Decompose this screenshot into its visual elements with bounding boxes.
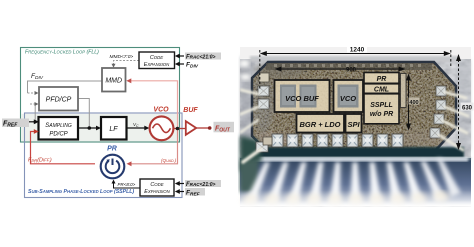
wire: FREF branch up to PFD/CP lower input	[34, 104, 37, 122]
svg-text:MMD: MMD	[105, 78, 122, 85]
buffer BUF	[186, 121, 196, 135]
svg-text:PR: PR	[107, 146, 117, 153]
node FOUT output label	[214, 122, 235, 133]
wire: PR output to Sampling PD/CP (red)	[31, 132, 96, 164]
block VCO (die)	[334, 80, 364, 112]
bond wire zone background	[240, 158, 471, 206]
svg-text:SAMPLING: SAMPLING	[45, 123, 72, 129]
wire: BUF to FOUT	[196, 127, 209, 129]
block SSPLL w/o PR	[364, 94, 399, 124]
wire: LF to VCO with Vc label	[127, 127, 147, 129]
bond wires bottom	[244, 158, 461, 204]
feedback wire: VCO output to MMD (pink)	[130, 81, 178, 129]
node FRAC<21:0> input label (top)	[185, 53, 221, 60]
node FREF input label	[2, 119, 29, 128]
oscillator VCO	[150, 116, 174, 140]
svg-text:FRAC<21:0>: FRAC<21:0>	[186, 182, 216, 188]
photo background	[240, 47, 471, 210]
wire: FDIV from MMD output to PFD/CP upper input	[28, 81, 103, 93]
dimension 1240	[260, 50, 451, 90]
block PFD/CP	[39, 87, 78, 111]
feedback wire: VCO output down to PR (pink)	[130, 129, 178, 164]
wire: Code Expansion 1 to MMD with MMD<7:0>	[114, 61, 140, 65]
svg-text:VCO: VCO	[153, 107, 169, 114]
svg-text:SUB-SAMPLING PHASE-LOCKED LOOP: SUB-SAMPLING PHASE-LOCKED LOOP (SSPLL)	[28, 189, 134, 195]
FLL loop box	[21, 48, 180, 143]
block LF	[101, 117, 127, 140]
svg-text:FDIV: FDIV	[31, 73, 44, 81]
svg-text:PR<8:0>: PR<8:0>	[118, 182, 136, 187]
svg-text:BUF: BUF	[183, 107, 198, 114]
wire: VCO to BUF (red)	[174, 128, 185, 130]
svg-text:PD/CP: PD/CP	[49, 132, 67, 138]
svg-text:BGR + LDO: BGR + LDO	[299, 120, 340, 129]
junction VCO output node	[176, 127, 180, 131]
bond wires left	[241, 90, 261, 162]
svg-text:FREF: FREF	[3, 121, 18, 129]
bottom dark die edge	[250, 147, 464, 158]
svg-text:MMD<7:0>: MMD<7:0>	[110, 54, 134, 60]
pads bottom row	[272, 134, 403, 147]
wire+arrow: FREF into Code Expansion 2	[177, 191, 184, 193]
wire+arrow: FRAC<21:0> into Code Expansion 2	[177, 183, 184, 185]
thin sliver block right of PR/CML stack	[401, 74, 407, 108]
block Sampling PD/CP	[39, 117, 79, 140]
block CML	[364, 84, 399, 94]
tiny test structures bottom-left of die	[263, 137, 272, 145]
block BGR + LDO	[297, 114, 345, 133]
wire+arrow: FDIV into Code Expansion 1	[177, 63, 184, 65]
shaded overlap band of FLL and SSPLL loops	[22, 114, 181, 142]
wire+arrow: FRAC<21:0> into Code Expansion 1	[177, 55, 184, 57]
SSPLL loop box	[25, 113, 183, 198]
svg-text:1240: 1240	[350, 47, 365, 54]
wire: Sampling PD/CP to LF with junction	[78, 127, 98, 129]
die tint patches	[254, 62, 306, 78]
pads right column	[430, 86, 446, 138]
svg-text:VCO: VCO	[340, 94, 356, 103]
svg-text:VCO BUF: VCO BUF	[285, 94, 319, 103]
pads left column	[256, 86, 269, 152]
svg-text:FREQUENCY-LOCKED LOOP (FLL): FREQUENCY-LOCKED LOOP (FLL)	[25, 50, 99, 56]
svg-text:FPR(DIFF.): FPR(DIFF.)	[28, 158, 52, 164]
block PR (die)	[364, 73, 399, 84]
wire: FREF to Sampling PD/CP	[29, 121, 35, 123]
dimension 400	[408, 75, 410, 129]
wire: PFD/CP output down to LF input junction	[78, 99, 89, 128]
die body (chamfered)	[252, 62, 456, 152]
warm glow at wire bottoms	[242, 191, 449, 206]
out-of-focus fingers top-left	[240, 60, 250, 80]
svg-text:(QUAD.): (QUAD.)	[161, 158, 177, 163]
bond wires right	[439, 92, 468, 150]
svg-text:FDIV: FDIV	[186, 62, 199, 70]
dimension 900	[276, 68, 404, 70]
svg-text:FRAC<21:0>: FRAC<21:0>	[186, 55, 216, 61]
pad ring cells along top edge	[266, 63, 432, 70]
block Code Expansion 2	[140, 179, 174, 196]
block SPI	[346, 114, 362, 133]
wire: Code Expansion 2 to PR with PR<8:0>	[114, 182, 141, 188]
junction on FREF wire	[34, 120, 37, 123]
block Code Expansion 1	[139, 52, 175, 69]
node FREF input label (bottom)	[185, 188, 205, 196]
svg-text:VC: VC	[133, 122, 139, 128]
svg-text:CML: CML	[374, 87, 389, 94]
svg-text:400: 400	[409, 100, 418, 106]
svg-text:w/o PR: w/o PR	[370, 111, 393, 118]
svg-text:LF: LF	[109, 126, 118, 133]
left teal corner	[240, 136, 262, 172]
node FRAC<21:0> input label (bottom)	[185, 180, 221, 187]
svg-text:PFD/CP: PFD/CP	[46, 97, 72, 104]
svg-text:630: 630	[462, 106, 473, 112]
dimension 630	[458, 55, 460, 149]
svg-text:900: 900	[346, 68, 357, 74]
phase rotator PR	[101, 155, 125, 179]
svg-text:PR: PR	[377, 76, 387, 83]
block MMD	[102, 68, 126, 92]
block VCO BUF	[275, 80, 330, 112]
fade to white at bottom	[240, 190, 471, 211]
die top light band	[250, 56, 458, 62]
svg-text:FOUT: FOUT	[215, 126, 231, 134]
svg-text:SSPLL: SSPLL	[370, 102, 393, 109]
svg-text:SPI: SPI	[347, 120, 360, 129]
